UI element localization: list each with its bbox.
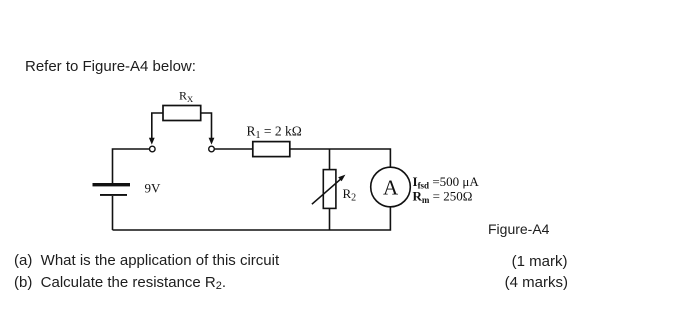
wire top rail right segment	[290, 149, 391, 167]
arrowhead right (Rx lead)	[209, 138, 215, 145]
wire left vertical (battery bottom lead)	[112, 196, 114, 230]
marks (b)	[505, 274, 568, 291]
resistor Rx	[163, 106, 201, 121]
resistor R2 (variable)	[323, 170, 336, 209]
svg-text:Rm = 250Ω: Rm = 250Ω	[413, 188, 473, 205]
arrow through R2	[312, 179, 341, 204]
wire top rail middle segment	[214, 148, 252, 150]
resistor R1	[253, 142, 290, 157]
heading text	[25, 58, 196, 75]
node terminal right (open circle)	[209, 146, 215, 152]
ammeter A	[371, 167, 411, 207]
node terminal left (open circle)	[150, 146, 156, 152]
wire R2 branch top	[329, 149, 331, 170]
battery 9V plates	[93, 183, 131, 196]
wire bottom rail	[113, 207, 391, 230]
wire R2 branch bottom	[329, 208, 331, 230]
arrowhead left (Rx lead)	[149, 138, 155, 145]
caption Figure-A4	[488, 221, 549, 237]
svg-text:R2: R2	[343, 186, 357, 204]
svg-text:R1 = 2 kΩ: R1 = 2 kΩ	[247, 124, 302, 142]
svg-text:9V: 9V	[145, 181, 162, 196]
svg-text:RX: RX	[179, 89, 193, 105]
wire left vertical (battery top lead) and top rail left segment	[113, 149, 150, 183]
question (b)	[14, 274, 226, 292]
wire Rx left lead	[152, 113, 163, 139]
marks (a)	[512, 253, 568, 270]
question (a)	[14, 252, 279, 269]
wire Rx right lead	[201, 113, 212, 139]
svg-text:A: A	[383, 176, 399, 200]
